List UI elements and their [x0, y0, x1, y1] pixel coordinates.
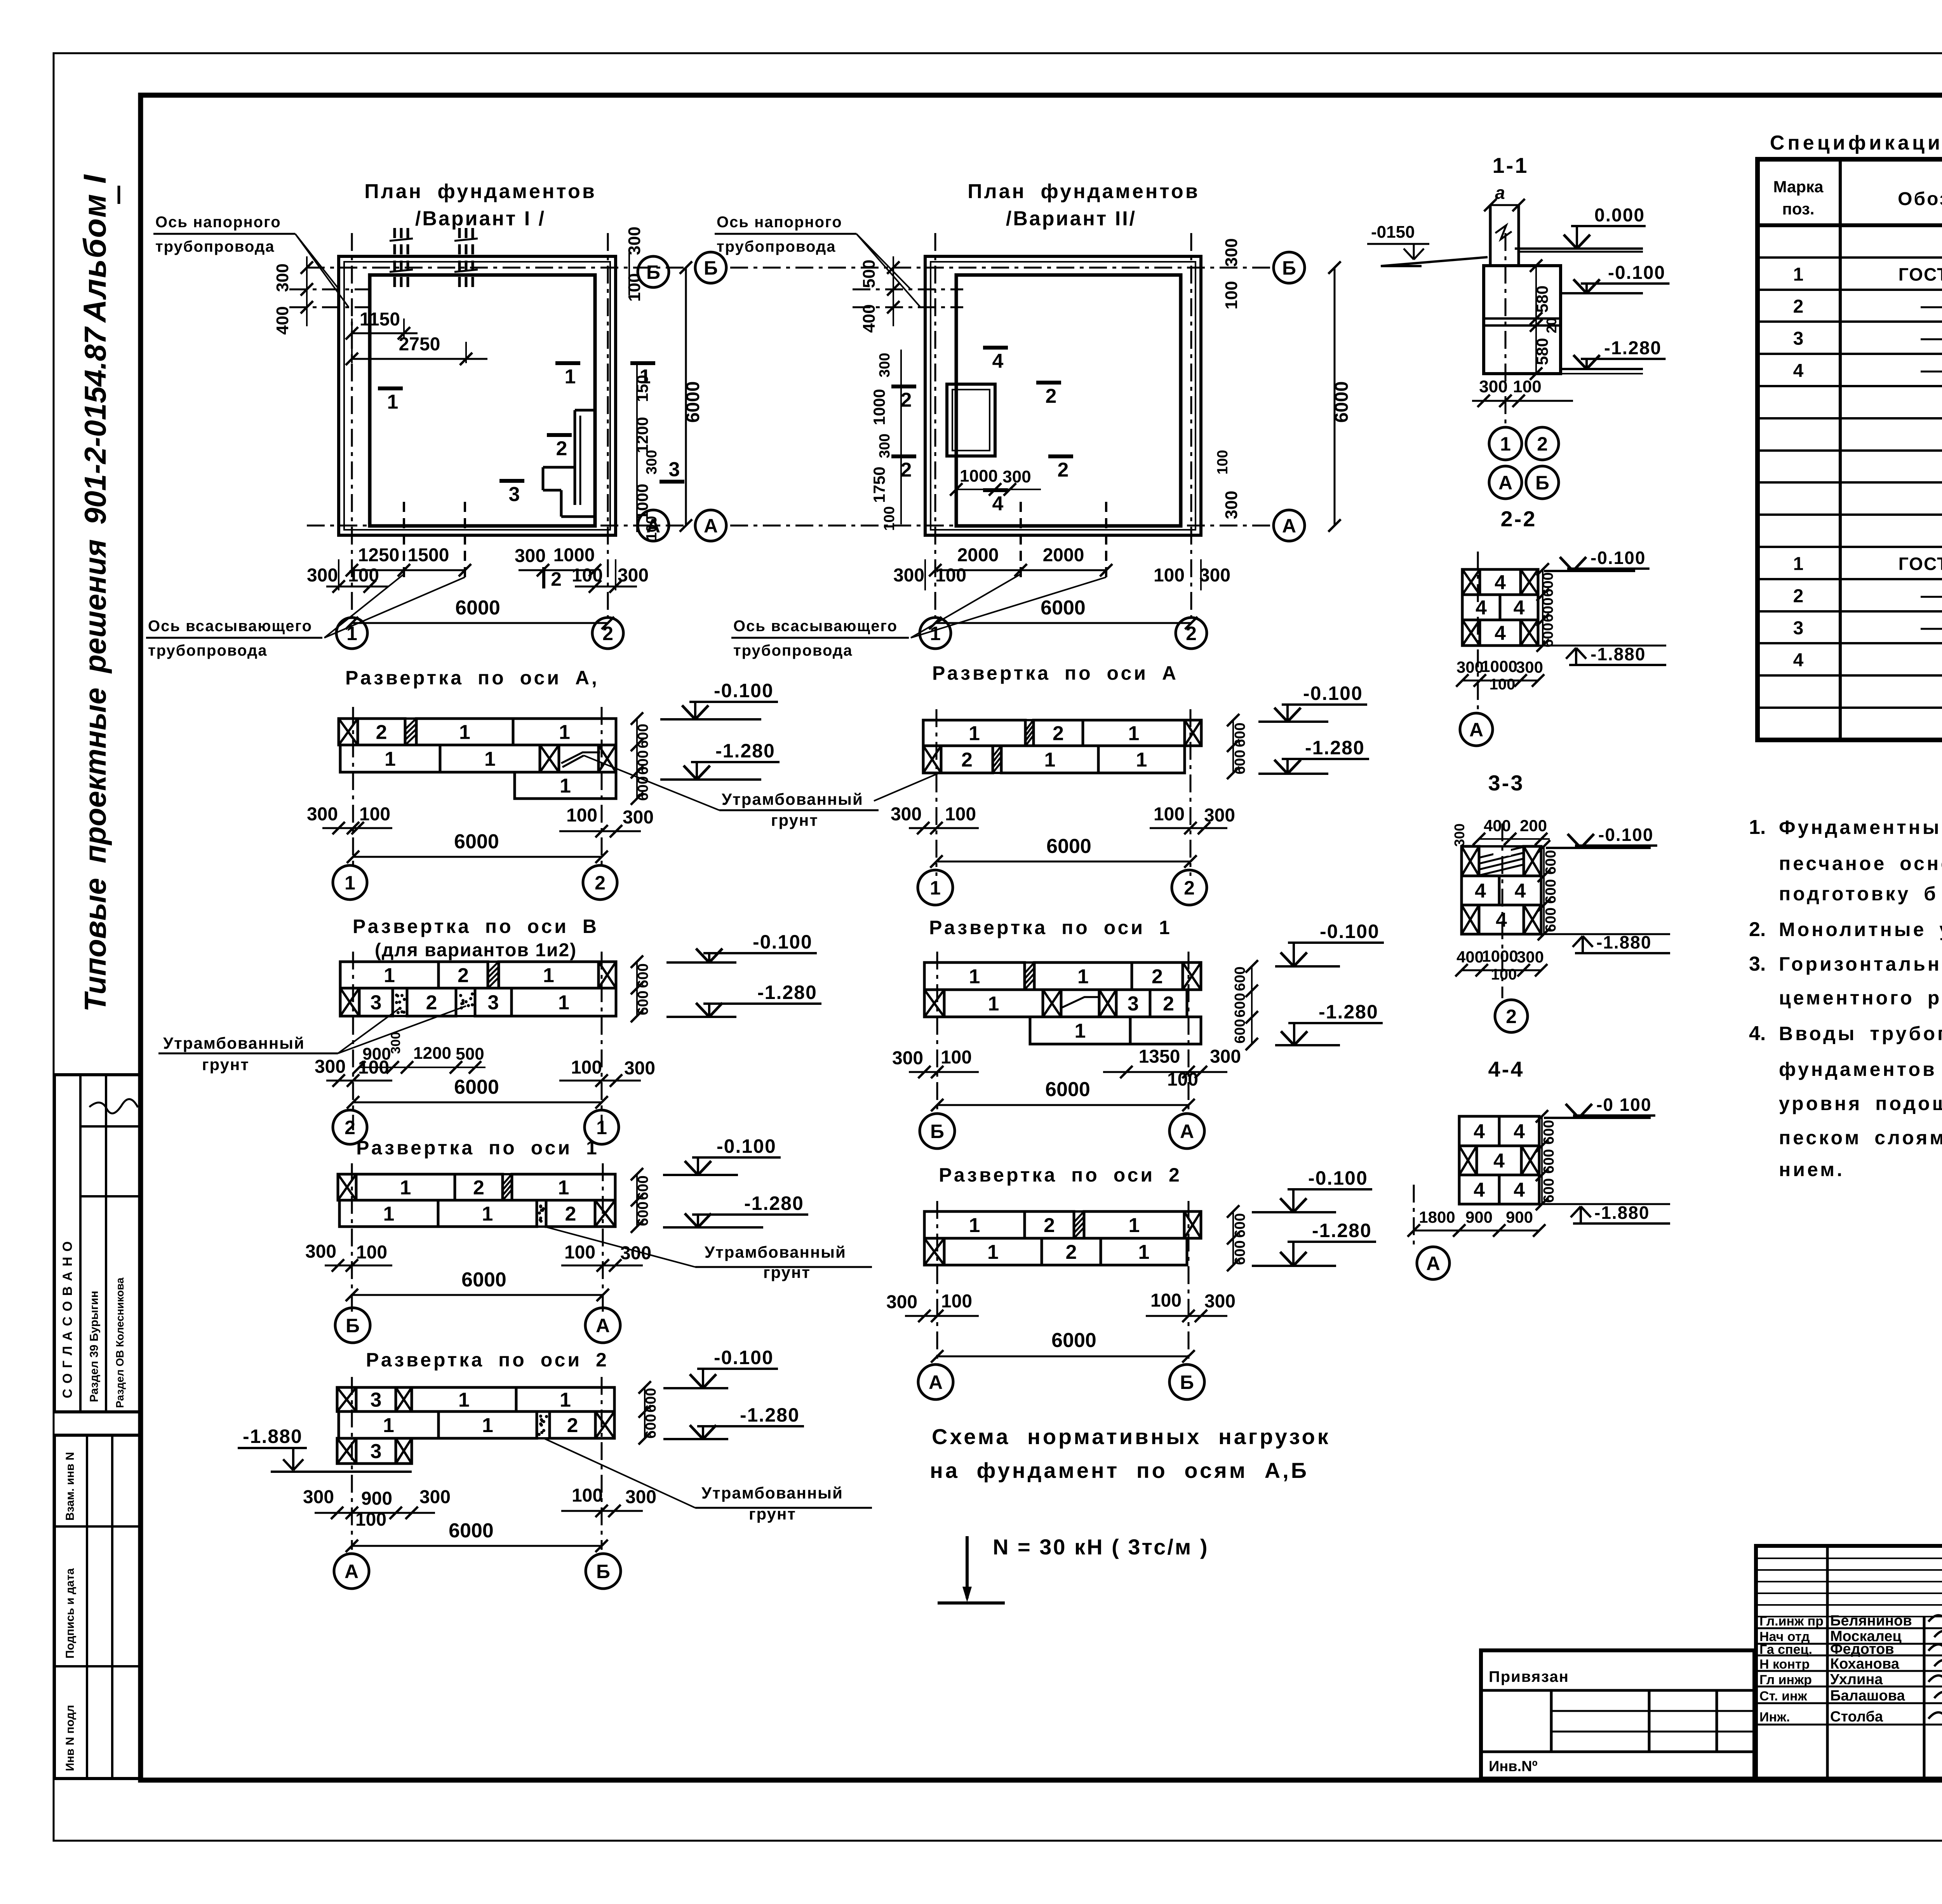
svg-text:/Вариант I /: /Вариант I / — [415, 207, 546, 230]
svg-text:900: 900 — [1506, 1208, 1533, 1226]
svg-text:1: 1 — [1044, 749, 1056, 771]
svg-text:100: 100 — [1154, 804, 1185, 825]
svg-text:А: А — [1282, 515, 1296, 537]
svg-text:А: А — [345, 1561, 358, 1582]
svg-text:600: 600 — [1541, 1149, 1557, 1173]
svg-text:Монолитные участки выполняют: Монолитные участки выполняются из бетона… — [1779, 919, 1942, 940]
svg-text:6000: 6000 — [454, 1076, 499, 1098]
svg-text:грунт: грунт — [771, 811, 818, 829]
svg-text:Б: Б — [646, 261, 660, 283]
svg-text:-0.100: -0.100 — [753, 931, 813, 953]
svg-text:2000: 2000 — [957, 545, 999, 566]
svg-text:500: 500 — [456, 1044, 484, 1063]
svg-text:2: 2 — [1058, 459, 1069, 481]
svg-text:уровня подошвы фундаментов: уровня подошвы фундаментов крупнозернист… — [1779, 1093, 1942, 1114]
svg-text:1: 1 — [458, 1389, 470, 1411]
svg-text:-0.100: -0.100 — [1303, 682, 1363, 704]
svg-text:2: 2 — [551, 568, 562, 590]
svg-text:3: 3 — [509, 483, 520, 506]
svg-text:6000: 6000 — [449, 1519, 494, 1542]
svg-text:1000: 1000 — [633, 484, 651, 520]
svg-text:2: 2 — [1044, 1214, 1055, 1237]
svg-text:3: 3 — [488, 992, 499, 1014]
svg-text:Инж.: Инж. — [1759, 1710, 1790, 1725]
svg-text:600: 600 — [1232, 1240, 1248, 1265]
svg-text:1500: 1500 — [408, 545, 449, 566]
svg-text:100: 100 — [1222, 281, 1241, 309]
svg-text:1000: 1000 — [553, 545, 595, 566]
svg-text:4: 4 — [1514, 1121, 1525, 1143]
svg-text:4: 4 — [1474, 1179, 1485, 1201]
svg-text:Обозначение: Обозначение — [1898, 189, 1942, 209]
svg-text:фундаментов с последующей з: фундаментов с последующей засыпкой транш… — [1779, 1058, 1942, 1080]
svg-text:300: 300 — [1517, 948, 1544, 966]
svg-text:4: 4 — [992, 493, 1004, 515]
svg-text:2: 2 — [1053, 722, 1064, 745]
svg-text:1: 1 — [560, 1389, 571, 1411]
svg-text:Б: Б — [1535, 472, 1549, 494]
svg-text:200: 200 — [1520, 816, 1547, 835]
svg-text:2: 2 — [1152, 966, 1163, 988]
svg-text:-1.280: -1.280 — [744, 1192, 804, 1214]
svg-text:1: 1 — [383, 1414, 394, 1437]
svg-text:1: 1 — [987, 1241, 999, 1264]
svg-text:трубопровода: трубопровода — [155, 238, 275, 255]
svg-text:Подпись и дата: Подпись и дата — [64, 1568, 77, 1659]
svg-text:Вводы трубопроводов заклад: Вводы трубопроводов закладываются до уст… — [1779, 1023, 1942, 1044]
svg-text:100: 100 — [572, 1485, 603, 1506]
svg-text:-0.100: -0.100 — [714, 680, 774, 701]
svg-text:1: 1 — [1136, 749, 1147, 771]
svg-text:Белянинов: Белянинов — [1830, 1613, 1912, 1629]
svg-text:Б: Б — [930, 1121, 944, 1142]
svg-text:300: 300 — [273, 263, 292, 292]
svg-text:А: А — [1180, 1121, 1194, 1142]
svg-text:Инв.Nº: Инв.Nº — [1489, 1758, 1538, 1775]
svg-text:Ось напорного: Ось напорного — [717, 214, 842, 231]
svg-text:100: 100 — [571, 1057, 602, 1078]
svg-text:300: 300 — [1222, 491, 1241, 519]
svg-text:1: 1 — [558, 1177, 569, 1199]
svg-text:2: 2 — [376, 721, 387, 744]
svg-text:Ось всасывающего: Ось всасывающего — [148, 618, 312, 635]
svg-text:400: 400 — [860, 304, 879, 332]
svg-text:500: 500 — [860, 259, 879, 288]
svg-text:-0.100: -0.100 — [1608, 263, 1665, 283]
svg-text:Привязан: Привязан — [1489, 1668, 1569, 1685]
svg-text:А: А — [1469, 719, 1483, 741]
svg-text:1-1: 1-1 — [1493, 153, 1529, 178]
svg-text:100: 100 — [1491, 966, 1517, 983]
svg-text:600: 600 — [1541, 1178, 1557, 1203]
svg-text:2-2: 2-2 — [1501, 506, 1537, 531]
svg-text:грунт: грунт — [202, 1055, 249, 1074]
svg-text:Коханова: Коханова — [1830, 1656, 1900, 1672]
svg-text:6000: 6000 — [1046, 835, 1091, 858]
svg-text:2: 2 — [1163, 993, 1174, 1015]
svg-text:3: 3 — [1793, 329, 1804, 349]
svg-text:1: 1 — [482, 1414, 493, 1437]
svg-text:трубопровода: трубопровода — [148, 642, 268, 659]
svg-text:А: А — [1426, 1253, 1440, 1274]
svg-text:трубопровода: трубопровода — [717, 238, 836, 255]
svg-text:100: 100 — [1490, 676, 1516, 693]
svg-text:1800: 1800 — [1419, 1208, 1455, 1226]
svg-text:300: 300 — [307, 565, 338, 586]
svg-text:Утрамбованный: Утрамбованный — [705, 1243, 846, 1261]
svg-text:20: 20 — [1544, 318, 1559, 333]
svg-text:Ухлина: Ухлина — [1830, 1671, 1883, 1688]
svg-text:Инв N подл: Инв N подл — [64, 1705, 77, 1771]
svg-text:подготовку б = 50 мм.: подготовку б = 50 мм. — [1779, 883, 1942, 905]
svg-text:1: 1 — [1138, 1241, 1150, 1264]
svg-text:Развертка по оси 2: Развертка по оси 2 — [366, 1349, 609, 1371]
svg-text:2: 2 — [595, 872, 606, 894]
svg-text:4: 4 — [1475, 880, 1486, 902]
svg-text:1: 1 — [559, 721, 570, 744]
svg-text:-0.100: -0.100 — [1308, 1167, 1368, 1189]
svg-text:2: 2 — [458, 964, 469, 987]
svg-text:Б: Б — [704, 257, 718, 279]
svg-text:400: 400 — [1484, 816, 1511, 835]
svg-text:300: 300 — [877, 353, 893, 377]
svg-text:Спецификация сборных бетонны: Спецификация сборных бетонных блоков фун… — [1770, 132, 1942, 154]
svg-text:-0.100: -0.100 — [1320, 921, 1380, 942]
svg-text:1: 1 — [1128, 722, 1140, 745]
svg-text:2: 2 — [556, 437, 567, 460]
svg-text:(для вариантов 1и2): (для вариантов 1и2) — [375, 940, 577, 961]
svg-text:1: 1 — [565, 365, 576, 388]
svg-text:2: 2 — [1184, 877, 1195, 899]
svg-text:300: 300 — [1479, 377, 1507, 396]
svg-text:1200: 1200 — [633, 417, 651, 453]
svg-text:Гл.инж пр: Гл.инж пр — [1759, 1614, 1824, 1629]
svg-text:трубопровода: трубопровода — [733, 642, 853, 659]
svg-text:600: 600 — [1232, 1213, 1248, 1237]
svg-text:100: 100 — [1150, 1290, 1182, 1311]
svg-text:3: 3 — [1793, 618, 1804, 639]
svg-text:3: 3 — [371, 1389, 382, 1411]
svg-text:100: 100 — [644, 516, 660, 540]
svg-text:300: 300 — [1222, 238, 1241, 266]
svg-text:6000: 6000 — [461, 1269, 506, 1291]
svg-text:-1.280: -1.280 — [1604, 338, 1662, 359]
svg-text:300: 300 — [1204, 1291, 1236, 1312]
svg-text:План фундаментов: План фундаментов — [364, 180, 597, 203]
svg-text:300: 300 — [886, 1292, 917, 1312]
svg-text:4: 4 — [1495, 571, 1506, 594]
svg-text:300: 300 — [625, 226, 644, 255]
svg-text:1: 1 — [930, 877, 941, 899]
svg-text:100: 100 — [1215, 450, 1231, 474]
svg-text:1: 1 — [969, 966, 980, 988]
svg-text:-0.100: -0.100 — [1598, 825, 1653, 845]
svg-text:2: 2 — [1066, 1241, 1077, 1264]
svg-text:600: 600 — [1543, 850, 1559, 874]
svg-text:-0 100: -0 100 — [1596, 1095, 1651, 1115]
svg-text:2: 2 — [565, 1203, 576, 1225]
svg-text:1: 1 — [400, 1177, 411, 1199]
svg-text:1200: 1200 — [413, 1044, 451, 1063]
svg-text:6000: 6000 — [1041, 597, 1086, 619]
svg-text:2: 2 — [1793, 296, 1804, 317]
svg-text:100: 100 — [1513, 377, 1541, 396]
svg-text:2: 2 — [345, 1117, 355, 1138]
svg-text:100: 100 — [1154, 565, 1185, 586]
svg-text:2: 2 — [1793, 586, 1804, 607]
svg-text:1: 1 — [1129, 1214, 1140, 1237]
svg-text:Балашова: Балашова — [1830, 1688, 1905, 1704]
svg-text:1350: 1350 — [1139, 1046, 1180, 1067]
svg-text:600: 600 — [1543, 879, 1559, 903]
svg-text:400: 400 — [1456, 948, 1484, 966]
svg-text:300: 300 — [893, 565, 924, 586]
svg-text:1: 1 — [387, 391, 398, 413]
svg-text:6000: 6000 — [1045, 1078, 1090, 1101]
svg-text:1250: 1250 — [358, 545, 400, 566]
svg-text:100: 100 — [941, 1291, 972, 1312]
svg-text:3: 3 — [669, 458, 680, 481]
svg-text:-1.280: -1.280 — [740, 1404, 800, 1426]
svg-text:3.: 3. — [1749, 953, 1766, 975]
svg-text:300: 300 — [1451, 823, 1467, 847]
svg-text:0.000: 0.000 — [1594, 205, 1645, 226]
svg-text:Развертка по оси 1: Развертка по оси 1 — [929, 917, 1172, 938]
svg-text:нием.: нием. — [1779, 1159, 1845, 1180]
svg-text:4: 4 — [1514, 597, 1525, 619]
svg-text:А: А — [704, 515, 718, 537]
svg-text:2000: 2000 — [1043, 545, 1084, 566]
svg-text:1: 1 — [459, 721, 470, 744]
svg-text:300: 300 — [618, 565, 649, 586]
svg-text:1: 1 — [383, 1203, 395, 1225]
svg-text:100: 100 — [625, 273, 644, 301]
svg-text:3: 3 — [371, 1440, 382, 1463]
svg-text:600: 600 — [1543, 907, 1559, 932]
svg-text:Утрамбованный: Утрамбованный — [701, 1484, 843, 1502]
svg-text:3-3: 3-3 — [1488, 771, 1524, 795]
svg-text:N = 30 кН ( 3тс/м ): N = 30 кН ( 3тс/м ) — [993, 1535, 1209, 1559]
svg-text:300: 300 — [624, 1058, 655, 1079]
svg-text:песчаное основание (при песч: песчаное основание (при песчаных грунтах… — [1779, 853, 1942, 874]
svg-text:песком слоями 15-20 см с: песком слоями 15-20 см с поливкой водой … — [1779, 1127, 1942, 1149]
svg-text:Развертка по оси В: Развертка по оси В — [353, 915, 599, 937]
svg-text:на фундамент по осям А,Б: на фундамент по осям А,Б — [930, 1458, 1309, 1483]
svg-text:300: 300 — [623, 807, 654, 828]
svg-text:1.: 1. — [1749, 816, 1766, 839]
svg-text:300: 300 — [515, 546, 546, 566]
svg-text:2750: 2750 — [399, 334, 440, 355]
svg-text:1750: 1750 — [870, 466, 888, 503]
svg-text:100: 100 — [356, 1242, 387, 1263]
svg-text:Утрамбованный: Утрамбованный — [163, 1034, 305, 1052]
svg-text:1000: 1000 — [1481, 657, 1517, 675]
svg-text:/Вариант II/: /Вариант II/ — [1006, 207, 1136, 230]
svg-text:4: 4 — [1493, 1150, 1505, 1172]
svg-text:-0.100: -0.100 — [714, 1347, 774, 1368]
svg-text:ГОСТ 13579-78: ГОСТ 13579-78 — [1898, 554, 1942, 574]
svg-text:цементного раствора состава: цементного раствора состава 1:2 на отмет… — [1779, 987, 1942, 1009]
svg-text:300: 300 — [620, 1243, 651, 1264]
svg-text:300: 300 — [644, 450, 660, 474]
svg-text:План фундаментов: План фундаментов — [968, 180, 1200, 203]
svg-text:1000: 1000 — [870, 389, 888, 425]
svg-text:1: 1 — [1793, 554, 1804, 574]
svg-text:Ось всасывающего: Ось всасывающего — [733, 618, 898, 635]
svg-text:1: 1 — [1793, 265, 1804, 285]
svg-text:-1.880: -1.880 — [1590, 644, 1646, 664]
svg-text:-0.100: -0.100 — [1590, 548, 1646, 568]
svg-text:1150: 1150 — [360, 309, 400, 330]
svg-text:4: 4 — [1793, 650, 1804, 671]
svg-text:-0150: -0150 — [1371, 223, 1415, 242]
svg-text:300: 300 — [315, 1056, 346, 1077]
svg-text:100: 100 — [564, 1242, 595, 1263]
svg-text:Ст. инж: Ст. инж — [1759, 1689, 1808, 1704]
svg-text:1000: 1000 — [960, 466, 998, 486]
svg-text:300: 300 — [419, 1487, 451, 1507]
svg-text:2: 2 — [473, 1177, 484, 1199]
svg-text:Марка: Марка — [1773, 178, 1824, 196]
svg-text:Типовые проектные решения 9: Типовые проектные решения 901-2-0154.87 — [78, 326, 112, 1012]
svg-text:1: 1 — [1075, 1020, 1086, 1043]
svg-text:900: 900 — [361, 1488, 392, 1509]
svg-text:Б: Б — [1282, 257, 1296, 279]
svg-text:6000: 6000 — [1051, 1329, 1096, 1352]
svg-text:100: 100 — [945, 804, 976, 825]
svg-text:150: 150 — [633, 375, 651, 402]
svg-text:2: 2 — [961, 749, 973, 771]
svg-text:поз.: поз. — [1782, 200, 1814, 218]
svg-text:-1.280: -1.280 — [757, 982, 817, 1003]
svg-text:300: 300 — [1516, 658, 1543, 676]
svg-text:1000: 1000 — [1482, 947, 1518, 965]
svg-text:Взам. инв N: Взам. инв N — [64, 1452, 77, 1521]
svg-text:1: 1 — [969, 722, 980, 745]
svg-text:300: 300 — [307, 804, 338, 825]
svg-text:Н контр: Н контр — [1759, 1657, 1810, 1672]
svg-text:2: 2 — [567, 1414, 578, 1437]
svg-text:100: 100 — [935, 565, 966, 586]
svg-text:Ось напорного: Ось напорного — [155, 214, 281, 231]
svg-text:4: 4 — [992, 350, 1004, 372]
svg-text:1: 1 — [484, 748, 496, 771]
svg-text:1: 1 — [482, 1203, 493, 1225]
svg-text:300: 300 — [891, 804, 922, 825]
svg-text:Развертка по оси 2: Развертка по оси 2 — [939, 1164, 1182, 1186]
svg-text:2.: 2. — [1749, 918, 1766, 941]
svg-text:-1.880: -1.880 — [243, 1425, 303, 1447]
svg-text:300: 300 — [305, 1241, 336, 1262]
svg-text:300: 300 — [1002, 467, 1031, 486]
svg-text:Гл инжр: Гл инжр — [1759, 1673, 1812, 1687]
svg-text:600: 600 — [1232, 966, 1248, 991]
svg-text:Развертка по оси А: Развертка по оси А — [932, 662, 1178, 684]
svg-text:-1.280: -1.280 — [1319, 1001, 1378, 1023]
svg-text:Федотов: Федотов — [1830, 1641, 1894, 1657]
svg-text:100: 100 — [358, 1057, 389, 1078]
svg-text:4: 4 — [1793, 361, 1804, 381]
svg-text:1: 1 — [385, 748, 396, 771]
svg-text:300: 300 — [625, 1487, 656, 1507]
svg-text:900: 900 — [1465, 1208, 1493, 1226]
svg-text:Фундаментные блоки укладывают: Фундаментные блоки укладываются на выров… — [1779, 816, 1942, 838]
svg-text:Б: Б — [346, 1315, 360, 1337]
svg-text:2: 2 — [901, 459, 912, 481]
svg-text:300: 300 — [892, 1048, 923, 1069]
svg-text:А: А — [596, 1315, 610, 1337]
svg-text:4: 4 — [1474, 1121, 1485, 1143]
svg-text:2: 2 — [1046, 385, 1057, 407]
svg-text:100: 100 — [881, 506, 898, 531]
svg-text:1: 1 — [560, 775, 571, 797]
svg-text:6000: 6000 — [454, 830, 499, 853]
svg-text:-0.100: -0.100 — [717, 1135, 776, 1157]
svg-text:300: 300 — [303, 1487, 334, 1507]
svg-text:1: 1 — [988, 993, 999, 1015]
svg-text:грунт: грунт — [763, 1263, 811, 1281]
svg-text:300: 300 — [1199, 565, 1230, 586]
svg-text:4: 4 — [1514, 1179, 1525, 1201]
svg-text:А: А — [929, 1371, 943, 1393]
svg-text:Утрамбованный: Утрамбованный — [722, 790, 863, 808]
svg-text:1: 1 — [596, 1117, 607, 1138]
svg-text:Раздел ОВ Колесникова: Раздел ОВ Колесникова — [114, 1277, 126, 1408]
svg-text:1: 1 — [969, 1214, 980, 1237]
svg-text:1: 1 — [558, 992, 569, 1014]
svg-text:4-4: 4-4 — [1488, 1057, 1524, 1081]
svg-text:100: 100 — [566, 805, 597, 826]
svg-text:2: 2 — [1537, 433, 1548, 455]
svg-text:А: А — [1498, 472, 1512, 494]
svg-text:3: 3 — [371, 992, 382, 1014]
svg-text:-1.280: -1.280 — [715, 740, 775, 762]
svg-text:Раздел 39 Бурыгин: Раздел 39 Бурыгин — [88, 1291, 101, 1402]
svg-text:4: 4 — [1515, 880, 1526, 902]
svg-text:3: 3 — [1128, 993, 1139, 1015]
svg-text:-1.280: -1.280 — [1305, 737, 1365, 759]
svg-text:ГОСТ 13579-78: ГОСТ 13579-78 — [1898, 265, 1942, 285]
svg-text:1: 1 — [384, 964, 395, 987]
svg-text:300: 300 — [1456, 658, 1484, 676]
svg-text:4.: 4. — [1749, 1022, 1766, 1045]
svg-text:400: 400 — [273, 306, 292, 334]
svg-text:300: 300 — [388, 1032, 403, 1054]
svg-text:Горизонтальная гидроизоляция: Горизонтальная гидроизоляция стен выполн… — [1779, 953, 1942, 975]
svg-text:300: 300 — [877, 433, 893, 458]
svg-text:300: 300 — [1210, 1046, 1241, 1067]
svg-text:Развертка по оси А,: Развертка по оси А, — [345, 667, 599, 689]
svg-text:Б: Б — [596, 1561, 610, 1582]
svg-text:1: 1 — [345, 872, 355, 894]
svg-text:-1.880: -1.880 — [1594, 1203, 1650, 1223]
svg-text:-1.880: -1.880 — [1596, 932, 1651, 952]
svg-text:100: 100 — [359, 804, 390, 825]
svg-text:Га спец.: Га спец. — [1759, 1642, 1812, 1657]
svg-text:2: 2 — [1506, 1006, 1517, 1027]
svg-text:100: 100 — [941, 1047, 972, 1068]
svg-text:2: 2 — [901, 389, 912, 411]
svg-text:1: 1 — [1077, 966, 1089, 988]
svg-text:4: 4 — [1495, 622, 1506, 645]
svg-text:С О Г Л А С О В А Н О: С О Г Л А С О В А Н О — [60, 1241, 75, 1398]
svg-text:-1.280: -1.280 — [1312, 1220, 1372, 1241]
svg-text:1: 1 — [1500, 433, 1511, 455]
svg-text:Столба: Столба — [1830, 1709, 1883, 1725]
svg-text:Развертка по оси 1: Развертка по оси 1 — [356, 1137, 599, 1159]
svg-text:Альбом I: Альбом I — [77, 174, 113, 323]
svg-text:2: 2 — [426, 992, 437, 1014]
